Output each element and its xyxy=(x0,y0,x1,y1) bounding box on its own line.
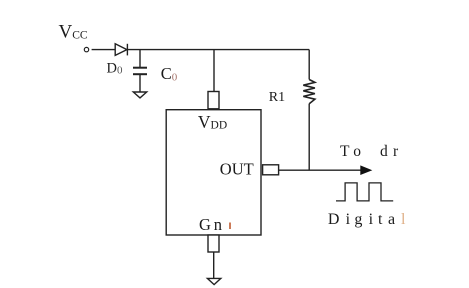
label Gnd clipped d tick xyxy=(229,223,231,230)
wire branch to VDD pin xyxy=(213,50,215,92)
label OUT xyxy=(220,160,254,179)
pin VDD xyxy=(208,92,219,109)
arrowhead to driver xyxy=(360,165,372,175)
svg-text:T: T xyxy=(340,143,350,160)
svg-text:o: o xyxy=(353,143,361,160)
svg-text:d: d xyxy=(380,143,388,160)
wire Vcc to diode anode xyxy=(92,49,116,51)
resistor R1 bottom lead xyxy=(308,104,310,171)
svg-text:D: D xyxy=(328,211,340,228)
ground under IC xyxy=(207,278,220,284)
capacitor C0 plate 1 xyxy=(133,67,147,69)
svg-text:a: a xyxy=(388,211,395,228)
svg-text:i: i xyxy=(369,211,374,228)
svg-text:D0: D0 xyxy=(107,61,123,77)
resistor R1 zigzag xyxy=(303,80,315,104)
IC box U1 xyxy=(166,110,261,235)
svg-text:C0: C0 xyxy=(161,64,178,84)
label Gnd xyxy=(199,215,225,234)
label C0 xyxy=(161,64,178,84)
wire GND pin to ground xyxy=(213,252,215,278)
svg-text:R1: R1 xyxy=(269,90,285,105)
diode D0 cathode bar xyxy=(126,44,128,56)
svg-text:g: g xyxy=(354,211,362,228)
wire OUT to arrow xyxy=(279,169,362,171)
waveform digital pulses xyxy=(336,183,393,201)
capacitor C0 plate 2 xyxy=(133,73,147,75)
svg-text:Gn: Gn xyxy=(199,215,225,234)
terminal circle Vcc xyxy=(84,47,88,51)
label VDD xyxy=(198,112,227,132)
ground under C0 xyxy=(133,92,146,98)
svg-text:t: t xyxy=(378,211,383,228)
svg-text:i: i xyxy=(346,211,351,228)
node Vcc label xyxy=(59,22,88,43)
pin OUT xyxy=(263,165,279,175)
svg-text:VCC: VCC xyxy=(59,22,88,43)
svg-text:OUT: OUT xyxy=(220,160,254,179)
svg-text:r: r xyxy=(393,143,399,160)
capacitor C0 stem top xyxy=(139,50,141,67)
label D0 xyxy=(107,61,123,77)
label Digital xyxy=(328,211,406,228)
label R1 xyxy=(269,90,285,105)
svg-text:l: l xyxy=(401,211,406,228)
resistor R1 top lead xyxy=(308,50,310,80)
svg-text:VDD: VDD xyxy=(198,112,227,132)
capacitor C0 stem bottom xyxy=(139,75,141,92)
pin GND xyxy=(208,235,219,252)
label To dr xyxy=(340,143,399,160)
diode D0 xyxy=(115,44,127,56)
wire top rail diode to corner xyxy=(127,49,309,51)
